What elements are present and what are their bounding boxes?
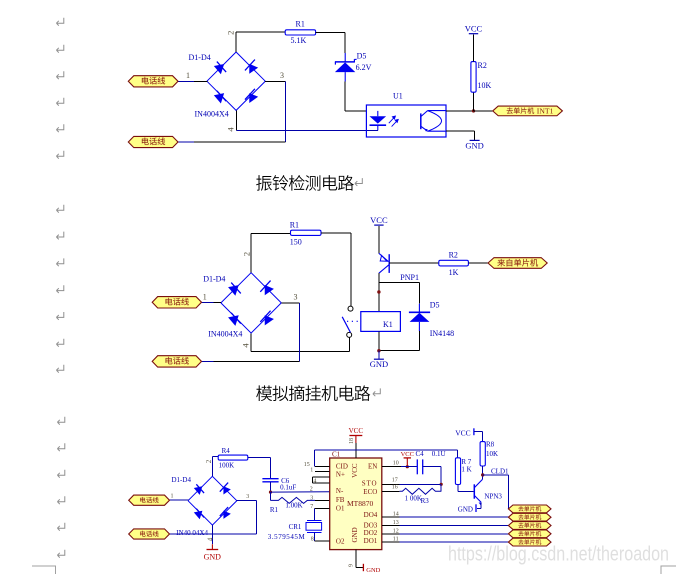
svg-text:10K: 10K: [486, 450, 498, 458]
svg-text:3: 3: [294, 293, 298, 302]
svg-text:GND: GND: [458, 505, 473, 513]
svg-text:3.579545M: 3.579545M: [268, 533, 306, 541]
svg-text:100K: 100K: [219, 462, 235, 470]
svg-text:R2: R2: [449, 250, 458, 259]
svg-text:1: 1: [186, 71, 190, 80]
svg-text:VCC: VCC: [401, 451, 414, 458]
svg-text:10K: 10K: [478, 81, 492, 90]
svg-text:R1: R1: [296, 20, 305, 29]
svg-text:N+: N+: [336, 471, 345, 479]
svg-text:0.1uF: 0.1uF: [280, 484, 296, 492]
svg-text:10: 10: [393, 461, 399, 467]
svg-text:DO2: DO2: [364, 529, 378, 537]
svg-text:GND: GND: [351, 527, 359, 542]
svg-text:EN: EN: [368, 462, 377, 470]
svg-text:17: 17: [392, 477, 398, 483]
svg-text:INT1: INT1: [537, 106, 554, 115]
svg-text:12: 12: [393, 528, 399, 534]
svg-text:2: 2: [310, 486, 313, 492]
svg-text:4: 4: [241, 343, 251, 348]
svg-text:4: 4: [313, 478, 316, 484]
svg-text:R4: R4: [222, 447, 231, 455]
svg-text:K1: K1: [383, 320, 393, 329]
svg-text:D1-D4: D1-D4: [172, 476, 192, 484]
svg-text:VCC: VCC: [351, 463, 359, 478]
svg-text:N-: N-: [336, 487, 344, 495]
svg-text:IN40 04X4: IN40 04X4: [176, 529, 208, 537]
svg-text:D1-D4: D1-D4: [203, 275, 225, 284]
svg-text:R2: R2: [478, 61, 487, 70]
svg-text:14: 14: [393, 512, 399, 518]
svg-text:1.00K: 1.00K: [285, 502, 302, 510]
svg-text:VCC: VCC: [370, 215, 388, 225]
svg-text:O2: O2: [336, 538, 345, 546]
svg-text:R1: R1: [270, 506, 279, 514]
svg-text:7: 7: [310, 504, 313, 510]
svg-text:VCC: VCC: [455, 428, 470, 437]
svg-text:FB: FB: [336, 496, 345, 504]
svg-text:1: 1: [171, 493, 174, 499]
svg-text:C4: C4: [416, 450, 425, 458]
svg-text:ECO: ECO: [363, 488, 377, 496]
svg-text:150: 150: [290, 237, 302, 246]
svg-text:STO: STO: [362, 480, 378, 488]
svg-text:PNP1: PNP1: [400, 273, 419, 282]
svg-text:D5: D5: [357, 51, 367, 60]
svg-text:CR1: CR1: [289, 523, 302, 531]
svg-text:1K: 1K: [449, 268, 459, 277]
svg-text:16: 16: [392, 484, 398, 490]
svg-text:IN4004X4: IN4004X4: [195, 110, 229, 119]
svg-text:VCC: VCC: [465, 24, 483, 34]
svg-text:U1: U1: [393, 92, 403, 101]
svg-text:3: 3: [310, 496, 313, 502]
svg-text:D1-D4: D1-D4: [189, 53, 211, 62]
svg-text:11: 11: [393, 537, 399, 543]
svg-text:IN4004X4: IN4004X4: [208, 330, 242, 339]
svg-text:MT8870: MT8870: [347, 499, 374, 508]
svg-text:2: 2: [225, 31, 235, 35]
svg-text:DO1: DO1: [364, 537, 378, 545]
svg-text:3: 3: [280, 71, 284, 80]
svg-text:R3: R3: [421, 497, 430, 505]
svg-text:1: 1: [203, 293, 207, 302]
svg-text:CID: CID: [336, 462, 348, 470]
svg-text:0.1U: 0.1U: [432, 450, 446, 458]
svg-text:R1: R1: [290, 221, 299, 230]
svg-text:13: 13: [393, 520, 399, 526]
svg-text:GND: GND: [465, 140, 483, 150]
svg-text:6.2V: 6.2V: [356, 63, 372, 72]
svg-text:VCC: VCC: [349, 427, 364, 435]
svg-text:18: 18: [349, 438, 355, 444]
svg-text:NPN3: NPN3: [484, 493, 502, 501]
svg-text:2: 2: [241, 252, 251, 256]
svg-text:1 K: 1 K: [461, 466, 471, 474]
svg-text:R8: R8: [486, 441, 495, 449]
svg-text:5.1K: 5.1K: [291, 36, 307, 45]
svg-text:4: 4: [206, 537, 214, 541]
svg-text:3: 3: [246, 494, 249, 500]
svg-text:CLD1: CLD1: [491, 468, 509, 476]
svg-text:2: 2: [205, 459, 213, 463]
svg-text:1: 1: [310, 467, 313, 473]
svg-text:8: 8: [311, 537, 314, 543]
svg-text:1 00K: 1 00K: [405, 494, 422, 502]
svg-text:15: 15: [304, 462, 310, 468]
svg-text:https://blog.csdn.net/theroado: https://blog.csdn.net/theroadon: [448, 544, 669, 566]
svg-text:9: 9: [348, 564, 354, 567]
svg-text:D5: D5: [430, 301, 440, 310]
svg-text:IN4148: IN4148: [430, 329, 454, 338]
svg-text:4: 4: [226, 127, 236, 132]
svg-text:GND: GND: [370, 359, 388, 369]
svg-text:DO4: DO4: [364, 511, 378, 519]
svg-text:GND: GND: [366, 567, 380, 574]
svg-text:C1: C1: [332, 451, 341, 459]
svg-text:GND: GND: [204, 552, 222, 561]
svg-text:O1: O1: [336, 504, 345, 512]
